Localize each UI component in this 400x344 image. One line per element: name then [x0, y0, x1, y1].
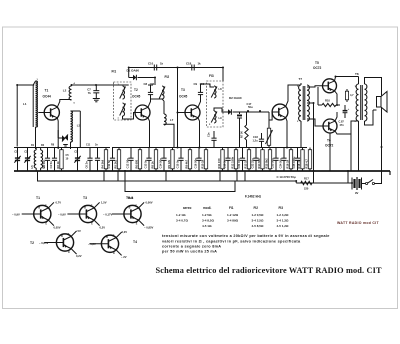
wire component rail mid [112, 147, 307, 149]
pin digit F11 top [118, 84, 120, 86]
wire T7 sec top to T5 base [307, 86, 323, 87]
svg-text:C3 50n: C3 50n [42, 159, 46, 168]
detail transistor T4 [89, 232, 121, 255]
IF transformer F11 can [114, 82, 132, 120]
svg-text:R13 1k: R13 1k [244, 159, 248, 168]
label F13 [209, 74, 214, 78]
svg-text:5V: 5V [78, 229, 81, 233]
wire AGC bracket 1 [38, 171, 297, 181]
label detail T2 emitter V [76, 254, 82, 258]
svg-text:L1: L1 [23, 102, 27, 106]
capacitor C31 below can [208, 131, 217, 148]
resistor R9 [188, 148, 191, 172]
label F12 [165, 75, 170, 79]
label R7 [239, 131, 243, 138]
svg-text:3-4 0,7Ω: 3-4 0,7Ω [176, 219, 188, 223]
svg-text:OC72: OC72 [325, 144, 334, 148]
resistor R10 [322, 103, 336, 106]
resistor R11 [221, 148, 224, 172]
IF transformer F13 primary L8 [211, 86, 217, 98]
label L2 [63, 89, 67, 93]
table header modl [203, 206, 212, 210]
svg-text:R14 68k: R14 68k [257, 158, 261, 169]
wire T1 emitter down [56, 118, 59, 149]
label R14 [257, 158, 261, 169]
svg-text:D1 OA90: D1 OA90 [127, 69, 140, 73]
label R18 [297, 159, 301, 168]
svg-text:L2: L2 [63, 89, 67, 93]
wire T8 sec to speaker [365, 78, 382, 126]
capacitor C21 [339, 121, 345, 127]
svg-text:R10: R10 [325, 99, 330, 103]
battery B1 [352, 177, 362, 190]
resistor R10 [204, 148, 207, 172]
capacitor C9 [198, 88, 203, 99]
table row 1 [176, 213, 289, 217]
resistor R18 [301, 148, 304, 172]
label C5b [74, 150, 78, 154]
label T5 type OC72 [313, 66, 322, 70]
label C7 [87, 88, 91, 95]
wire bus drop F12 [177, 68, 179, 148]
svg-text:FI2: FI2 [165, 75, 170, 79]
pin digit T8 top [355, 86, 357, 88]
svg-text:C: C [91, 205, 93, 208]
svg-text:1k: 1k [160, 62, 164, 66]
table header FI1 [229, 206, 234, 210]
switch S1 [362, 180, 375, 185]
speaker [377, 92, 388, 113]
svg-text:C: C [45, 205, 47, 208]
svg-text:FI3: FI3 [209, 74, 214, 78]
wire T7 primary bottom [300, 121, 302, 148]
table row 2 [176, 219, 289, 223]
svg-text:C19 5n: C19 5n [223, 159, 227, 168]
svg-text:R11 150: R11 150 [217, 158, 221, 169]
label R12 [231, 156, 235, 168]
pin digit F11 bot [118, 118, 120, 120]
label C2 [24, 150, 28, 154]
pin digit L1 top [37, 79, 39, 81]
svg-text:T3: T3 [83, 196, 87, 200]
svg-text:FI1: FI1 [112, 70, 117, 74]
label detail T4 emitter V [121, 255, 127, 259]
wire bus right end [222, 68, 224, 82]
resistor R9 [171, 148, 174, 172]
label detail T4 [133, 240, 137, 244]
label R1 above [31, 144, 35, 147]
label T1 type OC44 [43, 95, 52, 99]
label L5 [30, 165, 34, 169]
pin digit L2 bot [74, 103, 76, 105]
svg-text:B: B [129, 206, 131, 209]
label detail T4 base V [88, 242, 96, 246]
label detail T5-6 base V [103, 212, 112, 216]
svg-text:4,7: 4,7 [350, 93, 354, 97]
resistor R16 [289, 148, 292, 172]
svg-text:1-2 0,5Ω: 1-2 0,5Ω [252, 213, 264, 217]
note line 1 [162, 234, 330, 238]
oscillator coil L5 [34, 148, 36, 172]
svg-text:R9 12k: R9 12k [167, 159, 171, 168]
wire T6 collector [335, 112, 337, 121]
label C24 [279, 158, 283, 169]
label volume [253, 135, 259, 142]
resistor R12 [234, 148, 237, 172]
driver transformer T7 core [303, 86, 305, 120]
transistor T1 [44, 105, 59, 120]
wire T4 collector [286, 85, 301, 106]
label R2 above [41, 144, 45, 147]
label R16 [286, 159, 290, 168]
transistor T5 [323, 79, 337, 93]
svg-text:F.1462 kHz: F.1462 kHz [245, 195, 262, 199]
svg-text:OC72: OC72 [313, 66, 322, 70]
label T3 [181, 88, 185, 92]
svg-text:3-4 2,5Ω: 3-4 2,5Ω [252, 219, 264, 223]
label F11 [112, 70, 117, 74]
resistor R17 [301, 181, 312, 184]
capacitor C20 electrolytic [343, 105, 350, 118]
label C19 [223, 159, 227, 168]
svg-text:4-5 1,2Ω: 4-5 1,2Ω [277, 224, 289, 228]
label R8 above [51, 144, 55, 147]
svg-text:C 19 2700 50μ: C 19 2700 50μ [277, 175, 296, 179]
table header FI2 [254, 206, 259, 210]
svg-text:C22 25u: C22 25u [251, 158, 255, 169]
output transformer T8 secondary [365, 84, 367, 121]
pin digit T7 top [297, 86, 299, 88]
wire to T4 base [269, 112, 272, 120]
label detail T1 emitter V [54, 226, 61, 230]
capacitor C30 [259, 133, 264, 148]
capacitor C11 [110, 148, 115, 172]
label R10 [325, 99, 330, 103]
IF transformer F13 can [207, 81, 224, 127]
svg-text:C2: C2 [24, 150, 28, 154]
transistor T4 [272, 104, 288, 120]
svg-text:C1: C1 [14, 150, 18, 154]
wire osc link [57, 130, 59, 138]
label T1 [45, 89, 49, 93]
table row 3 [202, 224, 289, 228]
table header aereo [183, 206, 191, 210]
svg-text:T4: T4 [133, 240, 137, 244]
capacitor C22 [253, 148, 258, 172]
svg-text:R8 1k: R8 1k [151, 161, 155, 169]
svg-text:– 0,9V: – 0,9V [12, 212, 20, 216]
label C3 [42, 159, 46, 168]
IF transformer F11 secondary [120, 103, 126, 116]
label L3 [77, 124, 81, 128]
svg-text:R18 47: R18 47 [297, 159, 301, 168]
capacitor C4 [52, 148, 57, 172]
wire L3 right tap [71, 111, 81, 148]
label C23 [271, 158, 275, 169]
resistor R13 [247, 148, 250, 172]
capacitor C24 [281, 148, 286, 172]
svg-text:tensioni misurate con voltmetr: tensioni misurate con voltmetro a 20kΩ/V… [162, 234, 330, 238]
svg-text:T5-6: T5-6 [126, 196, 133, 200]
wire bracket riser f [244, 171, 246, 181]
svg-text:R9 4k7: R9 4k7 [185, 159, 189, 168]
label C14 [159, 158, 163, 169]
label C16 [194, 158, 198, 169]
svg-text:1,2u: 1,2u [253, 138, 259, 142]
label C11 [107, 159, 111, 168]
label R13 [244, 159, 248, 168]
capacitor C6 [87, 148, 92, 172]
resistor R4 [104, 148, 107, 172]
wire T4 emitter [286, 118, 287, 148]
svg-text:– 1,2V: – 1,2V [88, 242, 96, 246]
junction dots lower [57, 146, 382, 184]
svg-text:4-5 1Ω.: 4-5 1Ω. [202, 224, 212, 228]
svg-text:FI2: FI2 [254, 206, 259, 210]
capacitor C19 [225, 148, 230, 172]
wire T1 collector up [57, 100, 71, 108]
capacitor C25 [295, 148, 300, 172]
svg-text:C8: C8 [144, 82, 148, 86]
label C13 [144, 159, 148, 168]
label T5 [315, 61, 319, 65]
wire L9 to D2 [214, 108, 228, 112]
wire T5 emitter [335, 91, 338, 105]
label R5 [114, 159, 118, 168]
label R3 [56, 161, 60, 169]
detail transistor T5-6 [112, 202, 144, 225]
label detail T5-6 emitter V [144, 226, 153, 230]
svg-text:C10: C10 [148, 62, 154, 66]
capacitor C17 electrolytic [237, 112, 242, 148]
label R10 [201, 159, 205, 168]
table header FI3 [279, 206, 284, 210]
capacitor C13 [146, 148, 151, 172]
label C4 [49, 161, 53, 169]
label R9 [167, 159, 171, 168]
label C1 [14, 150, 18, 154]
svg-text:T2: T2 [134, 88, 138, 92]
svg-text:modl.: modl. [203, 206, 212, 210]
svg-text:C13 5n: C13 5n [144, 159, 148, 168]
label T2 [134, 88, 138, 92]
label detail T1 base V [12, 212, 20, 216]
svg-text:0,2V: 0,2V [76, 254, 82, 258]
svg-text:R5 2k2: R5 2k2 [114, 159, 118, 168]
svg-text:R10 1k: R10 1k [201, 159, 205, 168]
svg-text:L5: L5 [30, 165, 34, 169]
svg-text:FI3: FI3 [279, 206, 284, 210]
capacitor C8 [148, 88, 153, 99]
label D2 OA90 [229, 96, 242, 100]
pin digit F13 top [209, 85, 211, 87]
driver transformer T7 secondary [307, 85, 309, 121]
ground bus end tick [389, 171, 391, 175]
svg-text:R17: R17 [304, 177, 309, 181]
trimmer capacitor C1 [14, 148, 20, 172]
wire battery line [296, 181, 352, 183]
pin digit F13 bot [209, 124, 211, 126]
capacitor C15 [178, 148, 183, 172]
svg-text:B: B [106, 236, 108, 239]
svg-text:C23 50u: C23 50u [271, 158, 275, 169]
diode D1 [129, 68, 155, 86]
label T8 [355, 72, 359, 76]
label IF frequency [245, 195, 262, 199]
note line 3 [162, 245, 221, 249]
svg-text:C11 5n: C11 5n [107, 159, 111, 168]
svg-text:C16 50n: C16 50n [194, 158, 198, 169]
output transformer T8 primary [356, 77, 358, 122]
wire component rail left [14, 147, 110, 149]
svg-text:1-2 1Ω.: 1-2 1Ω. [176, 213, 186, 217]
resistor R5 [117, 148, 120, 172]
label detail T3 base V [58, 212, 66, 216]
svg-text:T5: T5 [315, 61, 319, 65]
label detail T1 [36, 196, 40, 200]
label C22 [251, 158, 255, 169]
svg-text:T1: T1 [45, 89, 49, 93]
label C8 [144, 82, 155, 86]
svg-text:C9: C9 [194, 82, 198, 86]
svg-text:C: C [135, 205, 137, 208]
label R19 [305, 159, 309, 169]
label L8 [219, 87, 223, 91]
wire top-left horizontal [17, 84, 34, 86]
svg-text:C: C [68, 233, 70, 236]
ground osc [63, 145, 68, 147]
svg-text:corrente a segnale zero 8mA: corrente a segnale zero 8mA [162, 245, 221, 249]
wire speaker return [381, 107, 383, 147]
label C25 [292, 156, 296, 168]
wire bracket riser b [117, 171, 119, 181]
resistor R11 [345, 89, 348, 102]
label detail T2 collector V [78, 229, 81, 233]
svg-text:0,06V: 0,06V [146, 201, 153, 205]
svg-text:C5: C5 [74, 150, 78, 154]
wire T8 primary mid tap [358, 121, 360, 171]
wire T7 sec mid [307, 103, 314, 171]
driver transformer T7 primary [299, 83, 301, 121]
capacitor C12 [128, 148, 133, 172]
wire T5 collector out [335, 77, 359, 81]
svg-text:3-4 89Ω: 3-4 89Ω [227, 219, 239, 223]
label detail T1 collector V [56, 201, 62, 205]
note line 2 [162, 239, 301, 243]
IF transformer F12 primary [159, 86, 165, 99]
label C21 [237, 158, 241, 169]
svg-text:1,5V: 1,5V [101, 201, 107, 205]
IF transformer F13 secondary L9 [211, 111, 217, 123]
note line 4 [162, 250, 217, 254]
transistor T3 [185, 105, 200, 120]
label battery 9V [355, 191, 359, 195]
label R17 [304, 177, 309, 191]
svg-text:valori resistivi in Ω , capaci: valori resistivi in Ω , capacitivi in pF… [162, 239, 301, 243]
label detail T4 collector V [122, 230, 128, 234]
svg-text:C1n: C1n [208, 132, 211, 137]
label L6 [42, 165, 46, 169]
svg-text:7k: 7k [88, 91, 92, 95]
label R11 [217, 158, 221, 169]
svg-text:C25 100u: C25 100u [292, 156, 296, 168]
capacitor C21 [240, 148, 245, 172]
resistor R3 [60, 148, 63, 172]
label T6 [327, 139, 331, 143]
pin digit T8 bot [355, 121, 357, 123]
svg-text:– 2V: – 2V [121, 255, 127, 259]
svg-text:R15 8k2: R15 8k2 [265, 158, 269, 169]
capacitor C23 [273, 148, 278, 172]
wire top bus [129, 67, 223, 69]
output transformer T8 core [361, 85, 363, 120]
label C9 [194, 82, 205, 86]
label T3 type OC45 [179, 95, 188, 99]
detail transistor T2 [44, 231, 76, 254]
svg-text:B: B [61, 235, 63, 238]
label L1 [23, 102, 27, 106]
label detail T5-6 collector V [146, 201, 153, 205]
svg-text:C15 5n: C15 5n [176, 159, 180, 168]
oscillator coil L2 [69, 85, 71, 100]
detail transistor T1 [22, 202, 54, 225]
svg-text:R6 680: R6 680 [135, 159, 139, 168]
svg-text:FI1: FI1 [229, 206, 234, 210]
wire T6 collector out [335, 121, 359, 171]
wire left rail [16, 85, 18, 147]
svg-text:WATT RADIO mod CIT: WATT RADIO mod CIT [337, 221, 379, 225]
capacitor C3 [45, 148, 50, 172]
volume potentiometer [266, 126, 273, 148]
resistor R7 [245, 112, 248, 148]
label R9 [185, 159, 189, 168]
wire R10 links [318, 87, 340, 105]
capacitor C10 series [154, 65, 156, 71]
pin digit T7 bot [297, 121, 299, 123]
caption [156, 266, 382, 275]
wire bracket riser a [103, 171, 105, 181]
svg-text:9V: 9V [355, 191, 359, 195]
label node values [66, 154, 70, 161]
svg-text:C6 2n: C6 2n [85, 161, 89, 169]
label R8 [151, 161, 155, 169]
wire bracket riser c [165, 171, 167, 181]
svg-text:L7: L7 [170, 118, 174, 122]
svg-text:B: B [84, 206, 86, 209]
label detail T2 [30, 241, 34, 245]
svg-text:1-2 4,2Ω: 1-2 4,2Ω [277, 213, 289, 217]
svg-text:R7 50: R7 50 [239, 131, 243, 138]
label R11 [350, 93, 354, 97]
label detail T5-6 [126, 196, 133, 200]
wire T2 emitter [148, 118, 150, 148]
label C19 under bus [277, 175, 296, 179]
capacitor C14 [161, 148, 166, 172]
resistor R15 [268, 148, 271, 172]
label bracket [128, 196, 134, 200]
resistor R8 [154, 148, 157, 172]
label WATT RADIO mod CIT [337, 221, 379, 225]
label L7 [170, 118, 174, 122]
label C10 [148, 62, 164, 66]
capacitor C18 series [192, 65, 194, 71]
svg-text:C21 10n: C21 10n [237, 158, 241, 169]
svg-text:2,2V: 2,2V [122, 230, 128, 234]
svg-text:Schema elettrico del radiorice: Schema elettrico del radioricevitore WAT… [156, 266, 382, 275]
svg-text:T8: T8 [355, 72, 359, 76]
label C17 [247, 102, 253, 109]
svg-text:R12 150k: R12 150k [231, 156, 235, 168]
